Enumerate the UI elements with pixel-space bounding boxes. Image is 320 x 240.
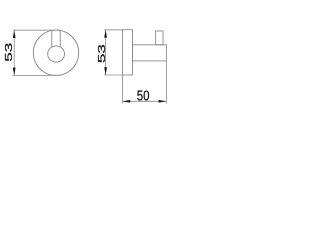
svg-text:53: 53 — [97, 44, 108, 63]
dim 53 right: bottom extension line — [104, 74, 122, 76]
outer circle (front view backplate) — [33, 30, 78, 75]
side view wall plate rectangle — [123, 30, 133, 75]
dim 50: right extension line — [165, 61, 167, 104]
side view hook tip rectangle — [156, 31, 163, 45]
small circle (hook boss front view) — [48, 46, 65, 62]
dim 50: dimension line — [122, 100, 166, 102]
neck right line — [59, 30, 61, 47]
dim 50: right arrowhead — [159, 100, 167, 103]
side view hook arm rectangle — [133, 45, 167, 61]
dim 53 left: top extension line — [13, 29, 61, 31]
dim 50: left arrowhead — [122, 100, 130, 103]
dim 50: left extension line — [121, 75, 123, 104]
dim 53 right: top extension line — [104, 29, 122, 31]
dim 53 right: bottom arrowhead — [104, 67, 107, 75]
dim 53 right: dimension line — [105, 30, 107, 75]
dim 53 left: bottom arrowhead — [13, 68, 16, 76]
dim 53 left: bottom extension line — [12, 74, 56, 76]
neck left line — [51, 30, 53, 47]
dim 53 right: top arrowhead — [104, 30, 107, 38]
svg-text:53: 53 — [4, 42, 15, 61]
dim 53 left: dimension line — [13, 30, 15, 75]
svg-text:50: 50 — [137, 88, 150, 104]
dim 53 left: top arrowhead — [13, 30, 16, 38]
